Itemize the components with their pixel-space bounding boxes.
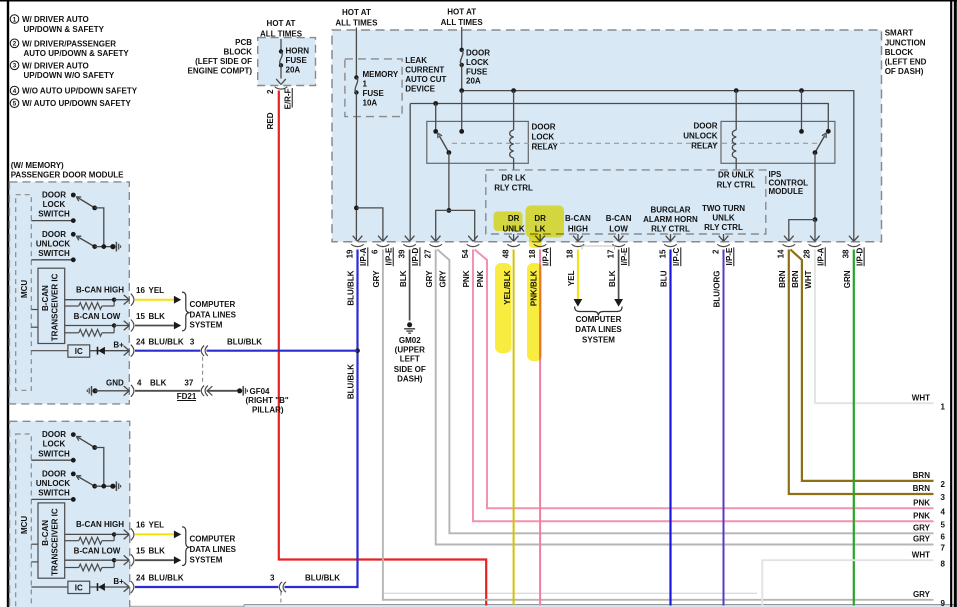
svg-text:24: 24 bbox=[136, 337, 145, 346]
svg-text:B-CAN LOW: B-CAN LOW bbox=[74, 547, 121, 556]
svg-text:15: 15 bbox=[136, 547, 145, 556]
svg-text:SYSTEM: SYSTEM bbox=[582, 335, 615, 344]
svg-text:GRY: GRY bbox=[913, 524, 931, 533]
svg-text:(LEFT END: (LEFT END bbox=[885, 58, 927, 67]
svg-text:BLU/BLK: BLU/BLK bbox=[227, 337, 262, 346]
svg-text:DOOR: DOOR bbox=[694, 122, 718, 131]
svg-text:UNLOCK: UNLOCK bbox=[36, 479, 70, 488]
svg-text:BLU: BLU bbox=[660, 270, 669, 287]
svg-text:DATA LINES: DATA LINES bbox=[190, 545, 237, 554]
svg-text:OF DASH): OF DASH) bbox=[885, 67, 924, 76]
svg-text:4: 4 bbox=[941, 507, 946, 516]
svg-text:UP/DOWN W/O SAFETY: UP/DOWN W/O SAFETY bbox=[24, 71, 115, 80]
svg-text:JUNCTION: JUNCTION bbox=[885, 38, 926, 47]
svg-text:DEVICE: DEVICE bbox=[405, 85, 435, 94]
svg-text:AUTO CUT: AUTO CUT bbox=[405, 75, 446, 84]
svg-text:DOOR: DOOR bbox=[466, 49, 490, 58]
svg-text:RLY CTRL: RLY CTRL bbox=[494, 184, 533, 193]
svg-text:E/R-F: E/R-F bbox=[283, 88, 292, 109]
svg-text:SWITCH: SWITCH bbox=[38, 210, 70, 219]
svg-text:HOT AT: HOT AT bbox=[342, 8, 371, 17]
svg-text:I/P-E: I/P-E bbox=[385, 247, 394, 265]
svg-text:I/P-A: I/P-A bbox=[359, 247, 368, 265]
svg-text:BLK: BLK bbox=[149, 547, 166, 556]
svg-text:HIGH: HIGH bbox=[568, 225, 588, 234]
svg-text:WHT: WHT bbox=[804, 270, 813, 288]
svg-text:4: 4 bbox=[13, 88, 17, 95]
svg-text:20A: 20A bbox=[466, 77, 481, 86]
svg-text:MEMORY: MEMORY bbox=[363, 70, 399, 79]
svg-text:SMART: SMART bbox=[885, 29, 914, 38]
svg-text:(RIGHT "B": (RIGHT "B" bbox=[246, 396, 289, 405]
svg-text:IC: IC bbox=[75, 347, 83, 356]
svg-text:I/P-A: I/P-A bbox=[542, 247, 551, 265]
svg-text:15: 15 bbox=[658, 249, 667, 258]
svg-text:TWO TURN: TWO TURN bbox=[702, 204, 745, 213]
svg-text:2: 2 bbox=[266, 89, 275, 94]
svg-text:HORN: HORN bbox=[286, 46, 310, 55]
svg-text:W/ DRIVER AUTO: W/ DRIVER AUTO bbox=[22, 15, 89, 24]
svg-text:19: 19 bbox=[345, 249, 354, 258]
svg-text:W/ DRIVER/PASSENGER: W/ DRIVER/PASSENGER bbox=[22, 39, 116, 48]
svg-text:MCU: MCU bbox=[20, 280, 29, 298]
svg-text:LOW: LOW bbox=[609, 225, 628, 234]
svg-text:RELAY: RELAY bbox=[532, 143, 559, 152]
svg-text:1: 1 bbox=[13, 16, 17, 23]
svg-text:DR UNLK: DR UNLK bbox=[718, 171, 754, 180]
svg-text:GRY: GRY bbox=[372, 270, 381, 288]
svg-text:5: 5 bbox=[13, 101, 17, 108]
svg-text:GRY: GRY bbox=[439, 270, 448, 288]
svg-text:BLU/BLK: BLU/BLK bbox=[149, 574, 184, 583]
svg-text:18: 18 bbox=[528, 249, 537, 258]
svg-text:2: 2 bbox=[941, 480, 946, 489]
svg-text:WHT: WHT bbox=[912, 550, 930, 559]
svg-text:PNK: PNK bbox=[462, 270, 471, 287]
svg-text:54: 54 bbox=[461, 249, 470, 258]
svg-text:B+: B+ bbox=[113, 341, 124, 350]
svg-text:3: 3 bbox=[270, 574, 275, 583]
svg-text:ENGINE COMPT): ENGINE COMPT) bbox=[188, 67, 253, 76]
svg-text:DATA LINES: DATA LINES bbox=[575, 325, 622, 334]
svg-text:I/P-E: I/P-E bbox=[620, 247, 629, 265]
svg-text:FUSE: FUSE bbox=[363, 89, 385, 98]
svg-text:15: 15 bbox=[136, 312, 145, 321]
svg-text:ALARM HORN: ALARM HORN bbox=[643, 215, 698, 224]
svg-text:17: 17 bbox=[606, 249, 615, 258]
svg-text:BLU/BLK: BLU/BLK bbox=[347, 364, 356, 399]
svg-text:I/P-D: I/P-D bbox=[855, 247, 864, 265]
svg-text:DOOR: DOOR bbox=[42, 230, 66, 239]
svg-text:FD21: FD21 bbox=[177, 392, 197, 401]
svg-text:1: 1 bbox=[363, 80, 368, 89]
svg-text:4: 4 bbox=[137, 378, 142, 387]
svg-text:GRY: GRY bbox=[913, 590, 931, 599]
svg-text:LOCK: LOCK bbox=[43, 440, 66, 449]
svg-text:B-CAN HIGH: B-CAN HIGH bbox=[76, 286, 124, 295]
svg-text:UP/DOWN & SAFETY: UP/DOWN & SAFETY bbox=[24, 25, 105, 34]
svg-text:MCU: MCU bbox=[20, 516, 29, 534]
svg-text:B-CAN: B-CAN bbox=[41, 520, 50, 546]
svg-text:BRN: BRN bbox=[791, 270, 800, 288]
svg-text:LEAK: LEAK bbox=[405, 56, 427, 65]
svg-text:(W/ MEMORY): (W/ MEMORY) bbox=[11, 161, 64, 170]
svg-text:I/P-D: I/P-D bbox=[411, 247, 420, 265]
svg-text:1: 1 bbox=[941, 402, 946, 411]
svg-text:SIDE OF: SIDE OF bbox=[394, 365, 426, 374]
svg-text:(UPPER: (UPPER bbox=[395, 345, 425, 354]
svg-text:GRN: GRN bbox=[843, 270, 852, 288]
svg-text:48: 48 bbox=[501, 249, 510, 258]
svg-text:AUTO UP/DOWN & SAFETY: AUTO UP/DOWN & SAFETY bbox=[24, 49, 130, 58]
svg-text:39: 39 bbox=[397, 249, 406, 258]
svg-text:2: 2 bbox=[711, 249, 720, 254]
svg-text:B-CAN HIGH: B-CAN HIGH bbox=[76, 520, 124, 529]
svg-text:DOOR: DOOR bbox=[532, 123, 556, 132]
svg-text:PILLAR): PILLAR) bbox=[252, 406, 284, 415]
svg-text:BLK: BLK bbox=[608, 270, 617, 287]
svg-text:PNK: PNK bbox=[913, 512, 930, 521]
svg-text:6: 6 bbox=[941, 533, 946, 542]
svg-text:FUSE: FUSE bbox=[466, 68, 488, 77]
svg-text:BLU/ORG: BLU/ORG bbox=[713, 271, 722, 308]
svg-text:LOCK: LOCK bbox=[466, 58, 489, 67]
svg-text:BLU/BLK: BLU/BLK bbox=[149, 337, 184, 346]
svg-text:3: 3 bbox=[190, 337, 195, 346]
svg-text:28: 28 bbox=[803, 249, 812, 258]
svg-text:DATA LINES: DATA LINES bbox=[190, 310, 237, 319]
svg-text:24: 24 bbox=[136, 574, 145, 583]
svg-text:FUSE: FUSE bbox=[286, 56, 308, 65]
svg-text:5: 5 bbox=[941, 521, 946, 530]
svg-text:COMPUTER: COMPUTER bbox=[190, 300, 236, 309]
svg-text:BRN: BRN bbox=[913, 484, 931, 493]
svg-text:27: 27 bbox=[424, 249, 433, 258]
svg-text:GF04: GF04 bbox=[250, 387, 271, 396]
svg-text:PASSENGER DOOR MODULE: PASSENGER DOOR MODULE bbox=[11, 171, 124, 180]
svg-text:B-CAN: B-CAN bbox=[41, 285, 50, 311]
svg-text:RLY CTRL: RLY CTRL bbox=[651, 225, 690, 234]
svg-text:RELAY: RELAY bbox=[691, 142, 718, 151]
svg-text:RLY CTRL: RLY CTRL bbox=[717, 181, 756, 190]
svg-text:3: 3 bbox=[13, 63, 17, 70]
svg-text:LEFT: LEFT bbox=[400, 355, 420, 364]
svg-text:BLK: BLK bbox=[150, 378, 167, 387]
svg-text:SWITCH: SWITCH bbox=[38, 249, 70, 258]
svg-text:SWITCH: SWITCH bbox=[38, 449, 70, 458]
svg-text:BLK: BLK bbox=[399, 270, 408, 287]
svg-text:ALL TIMES: ALL TIMES bbox=[260, 30, 303, 39]
svg-text:37: 37 bbox=[184, 378, 193, 387]
svg-text:ALL TIMES: ALL TIMES bbox=[335, 19, 378, 28]
svg-text:SYSTEM: SYSTEM bbox=[190, 321, 223, 330]
svg-text:GRY: GRY bbox=[913, 535, 931, 544]
svg-text:CURRENT: CURRENT bbox=[405, 66, 444, 75]
svg-text:14: 14 bbox=[777, 249, 786, 258]
svg-text:I/P-C: I/P-C bbox=[672, 247, 681, 265]
svg-text:W/O AUTO UP/DOWN SAFETY: W/O AUTO UP/DOWN SAFETY bbox=[22, 86, 138, 95]
svg-text:SWITCH: SWITCH bbox=[38, 489, 70, 498]
svg-text:20A: 20A bbox=[286, 65, 301, 74]
svg-text:DASH): DASH) bbox=[397, 375, 423, 384]
svg-text:DOOR: DOOR bbox=[42, 469, 66, 478]
svg-text:BLOCK: BLOCK bbox=[885, 48, 914, 57]
svg-text:BRN: BRN bbox=[913, 471, 931, 480]
svg-text:YEL: YEL bbox=[149, 286, 165, 295]
svg-text:B-CAN LOW: B-CAN LOW bbox=[74, 312, 121, 321]
svg-text:18: 18 bbox=[566, 249, 575, 258]
svg-text:BLU/BLK: BLU/BLK bbox=[305, 574, 340, 583]
svg-text:PCB: PCB bbox=[235, 38, 252, 47]
svg-text:YEL: YEL bbox=[149, 521, 165, 530]
svg-text:DR LK: DR LK bbox=[501, 174, 526, 183]
svg-text:10A: 10A bbox=[363, 99, 378, 108]
svg-text:HOT AT: HOT AT bbox=[267, 19, 296, 28]
svg-text:UNLK: UNLK bbox=[712, 214, 734, 223]
svg-text:WHT: WHT bbox=[912, 393, 930, 402]
svg-text:COMPUTER: COMPUTER bbox=[576, 315, 622, 324]
svg-text:LOCK: LOCK bbox=[43, 200, 66, 209]
svg-text:IC: IC bbox=[75, 583, 83, 592]
svg-text:9: 9 bbox=[941, 599, 946, 607]
svg-text:BURGLAR: BURGLAR bbox=[651, 206, 691, 215]
svg-text:BLU/BLK: BLU/BLK bbox=[347, 270, 356, 305]
svg-text:GRY: GRY bbox=[425, 270, 434, 288]
svg-text:SYSTEM: SYSTEM bbox=[190, 555, 223, 564]
svg-text:DOOR: DOOR bbox=[42, 430, 66, 439]
svg-text:B+: B+ bbox=[113, 577, 124, 586]
svg-text:38: 38 bbox=[842, 249, 851, 258]
svg-text:6: 6 bbox=[371, 249, 380, 254]
svg-text:UNLOCK: UNLOCK bbox=[36, 239, 70, 248]
svg-text:LOCK: LOCK bbox=[532, 133, 555, 142]
svg-text:YEL: YEL bbox=[567, 270, 576, 286]
svg-text:GM02: GM02 bbox=[399, 336, 421, 345]
svg-text:I/P-A: I/P-A bbox=[817, 247, 826, 265]
svg-text:7: 7 bbox=[941, 544, 946, 553]
svg-text:16: 16 bbox=[136, 521, 145, 530]
svg-text:MODULE: MODULE bbox=[769, 187, 804, 196]
svg-text:TRANSCEIVER IC: TRANSCEIVER IC bbox=[51, 508, 60, 576]
svg-text:B-CAN: B-CAN bbox=[565, 214, 591, 223]
svg-text:BLK: BLK bbox=[149, 312, 166, 321]
svg-text:3: 3 bbox=[941, 493, 946, 502]
svg-text:PNK: PNK bbox=[913, 498, 930, 507]
svg-text:GND: GND bbox=[106, 378, 124, 387]
svg-text:16: 16 bbox=[136, 286, 145, 295]
svg-text:PNK: PNK bbox=[476, 270, 485, 287]
svg-text:I/P-E: I/P-E bbox=[725, 247, 734, 265]
svg-text:BRN: BRN bbox=[778, 270, 787, 288]
svg-text:W/ DRIVER AUTO: W/ DRIVER AUTO bbox=[22, 61, 89, 70]
svg-text:RLY CTRL: RLY CTRL bbox=[704, 223, 743, 232]
svg-text:TRANSCEIVER IC: TRANSCEIVER IC bbox=[51, 273, 60, 341]
svg-text:ALL TIMES: ALL TIMES bbox=[441, 18, 484, 27]
svg-text:2: 2 bbox=[13, 41, 17, 48]
svg-text:W/ AUTO UP/DOWN SAFETY: W/ AUTO UP/DOWN SAFETY bbox=[22, 99, 132, 108]
svg-text:COMPUTER: COMPUTER bbox=[190, 535, 236, 544]
svg-text:B-CAN: B-CAN bbox=[606, 214, 632, 223]
svg-text:(LEFT SIDE OF: (LEFT SIDE OF bbox=[195, 57, 252, 66]
svg-text:UNLOCK: UNLOCK bbox=[683, 132, 717, 141]
svg-text:BLOCK: BLOCK bbox=[224, 48, 253, 57]
svg-text:8: 8 bbox=[941, 559, 946, 568]
svg-text:RED: RED bbox=[266, 112, 275, 129]
svg-text:HOT AT: HOT AT bbox=[447, 8, 476, 17]
svg-text:DOOR: DOOR bbox=[42, 191, 66, 200]
